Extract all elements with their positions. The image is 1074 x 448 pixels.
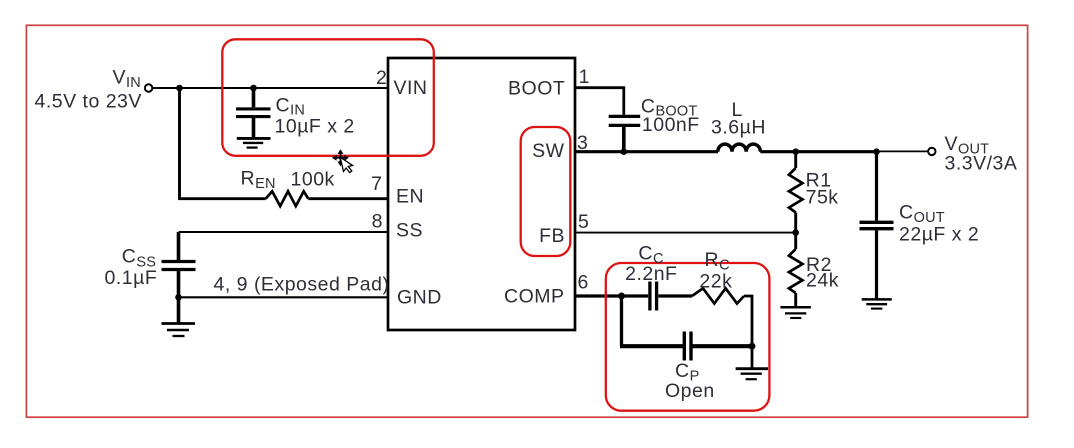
svg-text:2.2nF: 2.2nF [625, 263, 677, 285]
ground below CIN [237, 138, 271, 147]
wire EN right segment to pin 7 [308, 197, 388, 200]
wire COMP pin 6 [575, 294, 622, 297]
resistor R1 [794, 152, 797, 168]
svg-text:COMP: COMP [504, 286, 565, 308]
svg-text:3.3V/3A: 3.3V/3A [945, 153, 1018, 175]
wire SS to pin 8 [179, 231, 389, 233]
svg-text:EN: EN [396, 186, 424, 208]
svg-text:7: 7 [371, 173, 382, 195]
wire BOOT pin 1 [575, 88, 624, 115]
ground below CSS [162, 324, 196, 337]
svg-text:3.6µH: 3.6µH [711, 117, 766, 139]
node CP right junction [749, 343, 756, 350]
node VIN branch junction [176, 85, 183, 92]
svg-text:BOOT: BOOT [508, 78, 565, 100]
svg-text:100nF: 100nF [642, 114, 700, 136]
wire CP branch left leg [620, 296, 623, 346]
svg-text:GND: GND [397, 287, 442, 309]
mouse arrow pointer [340, 155, 354, 174]
node CIN top junction [250, 85, 257, 92]
svg-text:4.5V to 23V: 4.5V to 23V [35, 91, 142, 113]
wire SW pin 3 [575, 150, 718, 153]
wire VIN input to pin 2 [152, 87, 388, 89]
capacitor COUT [860, 152, 894, 300]
ground below COUT [862, 299, 892, 308]
node CBOOT to SW junction [621, 148, 628, 155]
node CSS / GND wire junction [175, 294, 182, 301]
svg-text:8: 8 [372, 211, 383, 233]
svg-text:100k: 100k [291, 169, 335, 191]
svg-text:22k: 22k [699, 271, 732, 293]
svg-text:2: 2 [376, 67, 387, 89]
resistor R2 [794, 233, 797, 249]
resistor RC [692, 288, 744, 303]
wire RC to corner and down [744, 296, 752, 346]
red annotation box around CIN/VIN [222, 39, 433, 156]
svg-text:4, 9 (Exposed Pad): 4, 9 (Exposed Pad) [214, 274, 390, 296]
capacitor CP [620, 332, 752, 361]
resistor REN [266, 191, 309, 206]
wire L to COUT [760, 150, 876, 153]
svg-text:VIN: VIN [394, 77, 428, 99]
wire VIN branch down to EN [178, 88, 181, 199]
svg-text:Open: Open [665, 380, 715, 402]
ground below comp network [736, 369, 768, 380]
capacitor CC [622, 282, 693, 311]
capacitor CIN [236, 88, 271, 138]
svg-text:75k: 75k [806, 186, 839, 208]
wire to VOUT terminal [877, 150, 929, 152]
terminal VIN [145, 84, 152, 91]
svg-text:22µF x 2: 22µF x 2 [899, 224, 979, 246]
node FB junction [792, 229, 799, 236]
node COUT top junction [873, 148, 880, 155]
capacitor CSS [162, 232, 196, 324]
capacitor CBOOT [609, 116, 641, 153]
IC U1 body [388, 58, 575, 330]
svg-text:SS: SS [396, 220, 423, 242]
svg-text:1: 1 [579, 66, 590, 88]
mouse move cursor [332, 149, 349, 166]
svg-text:SW: SW [532, 140, 565, 162]
wire EN left segment [178, 197, 266, 200]
wire FB pin 5 [575, 232, 796, 234]
svg-text:24k: 24k [806, 270, 839, 292]
wire down to ground [751, 346, 754, 369]
red annotation box around SW/FB [521, 127, 571, 256]
svg-text:5: 5 [578, 211, 589, 233]
svg-text:10µF x 2: 10µF x 2 [275, 116, 355, 138]
node COMP junction [618, 293, 625, 300]
wire GND pin (4,9) [179, 296, 389, 298]
inductor L [718, 144, 761, 152]
svg-text:6: 6 [578, 272, 589, 294]
svg-text:FB: FB [539, 225, 565, 247]
node R1 top junction [792, 148, 799, 155]
terminal VOUT [928, 148, 935, 155]
svg-text:3: 3 [577, 132, 588, 154]
ground below R2 [780, 307, 811, 318]
red annotation box around compensation network [606, 263, 770, 411]
svg-text:0.1µF: 0.1µF [105, 267, 158, 289]
